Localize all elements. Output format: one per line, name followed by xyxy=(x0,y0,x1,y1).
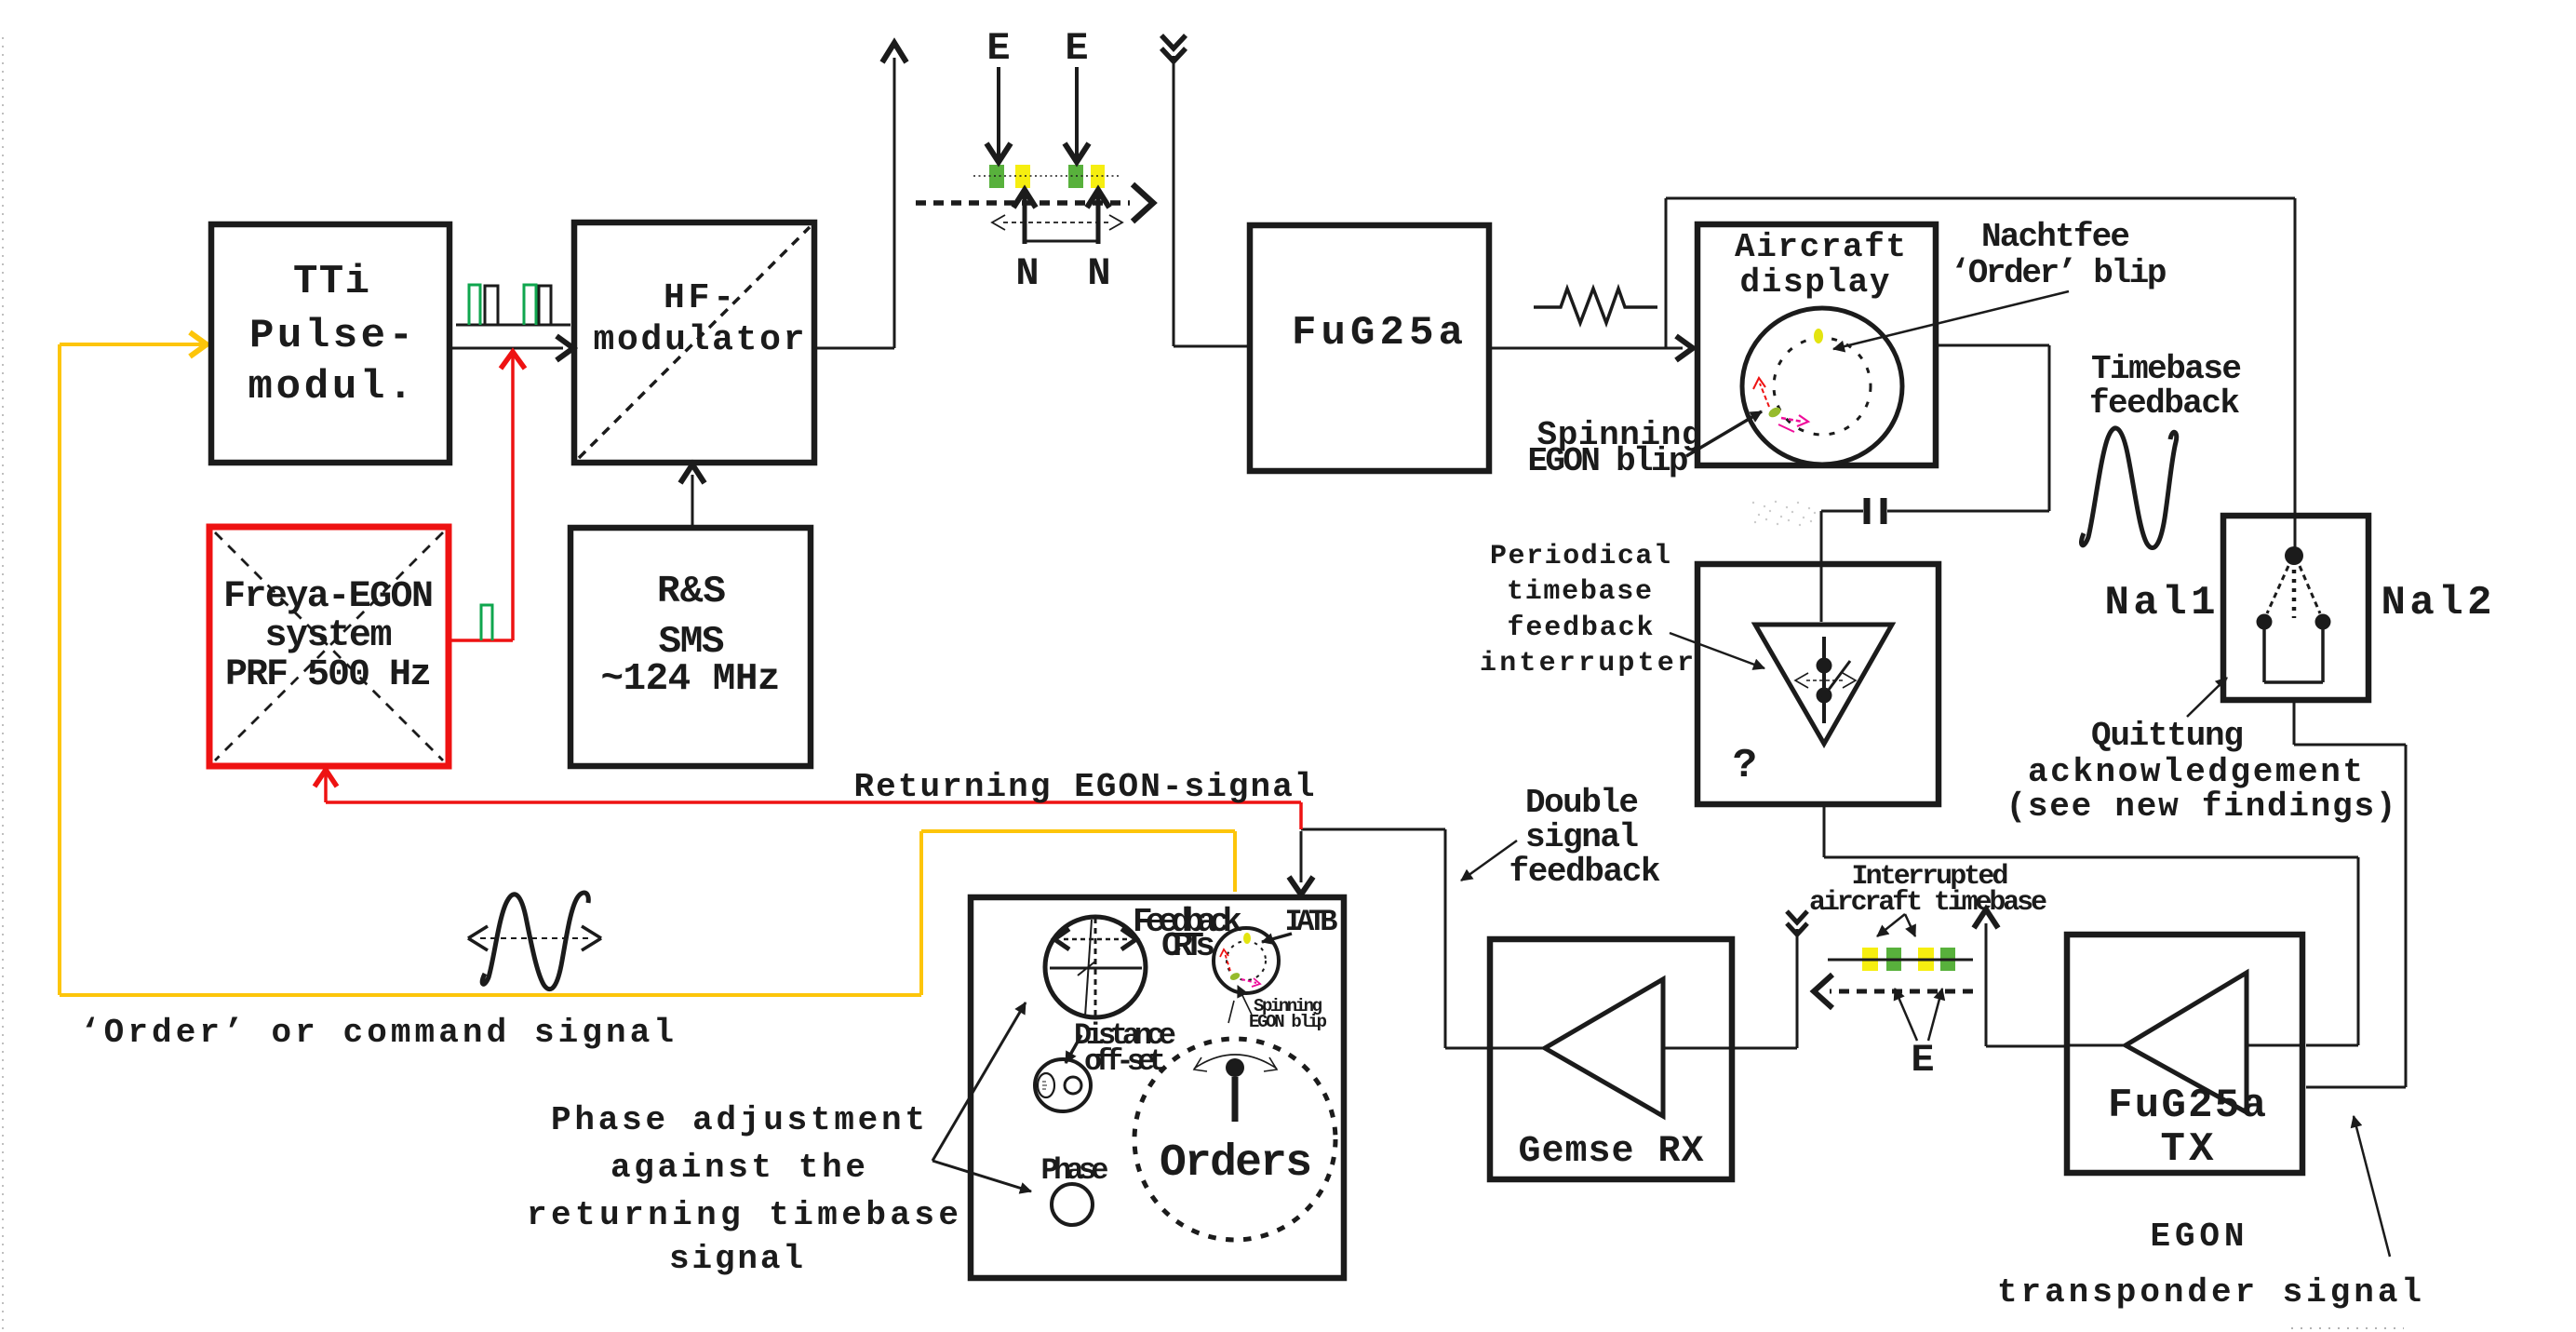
svg-text:interrupter: interrupter xyxy=(1480,648,1694,679)
svg-text:Nachtfee: Nachtfee xyxy=(1981,218,2130,256)
svg-text:HF-: HF- xyxy=(664,278,734,318)
svg-text:Timebase: Timebase xyxy=(2091,350,2242,388)
svg-text:acknowledgement: acknowledgement xyxy=(2028,753,2363,791)
svg-text:Aircraft: Aircraft xyxy=(1735,228,1906,266)
svg-text:R&S: R&S xyxy=(657,571,726,613)
svg-text:E: E xyxy=(986,26,1010,71)
svg-text:‘Order’ blip: ‘Order’ blip xyxy=(1951,254,2167,292)
svg-text:N: N xyxy=(1015,251,1039,296)
svg-text:EGON blip: EGON blip xyxy=(1249,1012,1327,1032)
svg-text:modulator: modulator xyxy=(594,320,805,360)
svg-text:aircraft timebase: aircraft timebase xyxy=(1809,887,2047,919)
svg-text:IATB: IATB xyxy=(1285,905,1338,939)
svg-text:EGON blip: EGON blip xyxy=(1528,442,1689,480)
svg-text:system: system xyxy=(265,615,393,657)
svg-text:?: ? xyxy=(1733,743,1757,789)
svg-text:N: N xyxy=(1087,251,1110,296)
svg-text:CRTs: CRTs xyxy=(1161,927,1215,965)
svg-text:‘Order’ or command signal: ‘Order’ or command signal xyxy=(80,1014,674,1052)
svg-text:feedback: feedback xyxy=(1509,853,1661,891)
svg-text:E: E xyxy=(1911,1038,1934,1083)
svg-text:Double: Double xyxy=(1525,784,1639,822)
svg-text:timebase: timebase xyxy=(1507,576,1652,608)
svg-text:off-set: off-set xyxy=(1084,1044,1166,1079)
svg-text:feedback: feedback xyxy=(1508,612,1654,644)
svg-text:TTi: TTi xyxy=(293,259,369,305)
svg-text:Quittung: Quittung xyxy=(2091,717,2244,755)
svg-text:~124 MHz: ~124 MHz xyxy=(601,658,781,701)
svg-text:signal: signal xyxy=(1525,818,1639,856)
svg-text:Periodical: Periodical xyxy=(1490,541,1670,572)
svg-text:Gemse RX: Gemse RX xyxy=(1519,1131,1704,1173)
svg-text:against the: against the xyxy=(610,1149,865,1187)
svg-text:display: display xyxy=(1740,263,1890,302)
svg-text:feedback: feedback xyxy=(2089,384,2240,423)
svg-text:Orders: Orders xyxy=(1160,1138,1312,1189)
svg-text:Freya-EGON: Freya-EGON xyxy=(223,576,434,618)
svg-text:Returning EGON-signal: Returning EGON-signal xyxy=(854,768,1315,806)
svg-text:E: E xyxy=(1065,26,1088,71)
svg-text:PRF 500 Hz: PRF 500 Hz xyxy=(225,654,432,696)
svg-text:(see new findings): (see new findings) xyxy=(2006,787,2396,826)
